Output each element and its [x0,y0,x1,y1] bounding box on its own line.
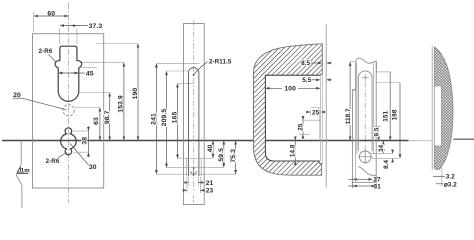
arch center mark [362,77,369,79]
dim 21 [188,177,190,186]
dim 37.3 [60,25,88,27]
step line [352,90,355,92]
dim 27 [353,178,363,180]
svg-text:75.3: 75.3 [230,149,237,163]
s-curve [358,167,376,176]
svg-text:25: 25 [312,110,320,117]
left rib line [355,90,357,183]
svg-text:37.3: 37.3 [89,23,103,30]
dim 98.7 [79,92,111,94]
dim 45 [59,72,85,74]
dim 34 [382,141,384,147]
svg-text:241: 241 [151,113,158,125]
svg-text:165: 165 [172,112,179,124]
vertical centerline [68,3,70,203]
inner cavity outline [265,75,320,161]
dim 151 [376,71,390,73]
svg-text:98.7: 98.7 [104,110,111,124]
svg-text:25: 25 [298,123,305,131]
column centerline [193,20,195,192]
datum thin segment [409,140,433,142]
dim 31 [353,185,363,187]
profile right edge [375,61,377,182]
centerline [364,82,366,165]
svg-text:5.5: 5.5 [302,77,311,84]
svg-text:14.8: 14.8 [290,144,297,157]
svg-text:209.5: 209.5 [161,109,168,127]
svg-text:45: 45 [86,70,94,77]
svg-text:153.9: 153.9 [118,95,125,113]
section wall hatched [254,44,323,175]
dim 165 [178,83,194,85]
dim 241 [156,62,200,64]
dim 118.7 [350,61,356,63]
dim 100 [266,87,282,89]
svg-text:30: 30 [89,164,97,171]
ext lines for 8.4 [371,153,393,155]
keyhole slot [55,46,82,101]
dim 23 [186,177,188,194]
label 2-R11.5 [193,74,195,76]
datum line right segment [453,138,474,140]
svg-text:3.2: 3.2 [446,174,455,181]
wall edge lines [319,75,321,161]
profile outline [356,58,377,89]
svg-text:21: 21 [206,180,214,187]
dim 59.5 [223,141,225,154]
dim 38 [73,130,89,132]
dim 198 [376,82,400,84]
boss outer walls [356,63,358,154]
dashed circle [63,105,74,116]
keyhole lower [61,128,77,155]
part outline [33,34,104,188]
surface mark 1m [20,141,22,165]
dim 190 [96,43,138,45]
slot bottom arrows [193,167,195,169]
svg-text:27: 27 [373,177,381,184]
svg-text:31: 31 [374,184,382,191]
crescent hatched [435,47,454,170]
dim 153.9 [82,61,124,63]
svg-text:2-R6: 2-R6 [39,48,53,55]
dim 25 vertical [302,120,304,134]
crescent left line [431,46,433,170]
svg-text:59.5: 59.5 [218,148,225,162]
svg-text:8.4: 8.4 [383,159,390,168]
dim 75.3 [235,141,237,156]
svg-text:34: 34 [378,144,385,152]
svg-text:190: 190 [132,88,139,100]
svg-text:9.5: 9.5 [373,127,380,136]
dim 209.5 [167,70,189,72]
svg-text:2-R6: 2-R6 [46,158,60,165]
mating wall line [325,24,327,187]
dim 3.2 [441,168,443,187]
dim dia 3.2 [436,183,444,185]
dim 14.8 [294,141,296,162]
inner arch [358,71,372,151]
svg-text:60: 60 [47,10,55,17]
svg-text:151: 151 [383,111,390,122]
svg-text:63: 63 [93,117,100,125]
dim 25 horizontal [311,107,319,109]
svg-text:23: 23 [206,188,214,195]
dim 9.5 [374,126,381,128]
datum line [2,140,409,142]
step lines [303,119,321,121]
svg-text:118.7: 118.7 [345,108,352,124]
hole circle [359,151,371,163]
svg-text:8.5: 8.5 [301,60,310,67]
svg-text:198: 198 [392,109,399,120]
bottom centerline stub [193,196,195,203]
dim 63 [75,107,101,109]
inner slot [188,68,199,176]
svg-text:40: 40 [207,145,214,153]
dim 40 [212,141,214,149]
svg-text:38: 38 [82,137,89,145]
svg-text:2-R11.5: 2-R11.5 [209,58,232,65]
dim 8.4 [392,150,394,153]
dim 60 [34,15,51,17]
white slot [434,86,441,146]
svg-text:⌀3.2: ⌀3.2 [444,181,457,188]
svg-text:100: 100 [284,85,296,92]
column outline [184,24,205,205]
step lines [178,157,214,159]
